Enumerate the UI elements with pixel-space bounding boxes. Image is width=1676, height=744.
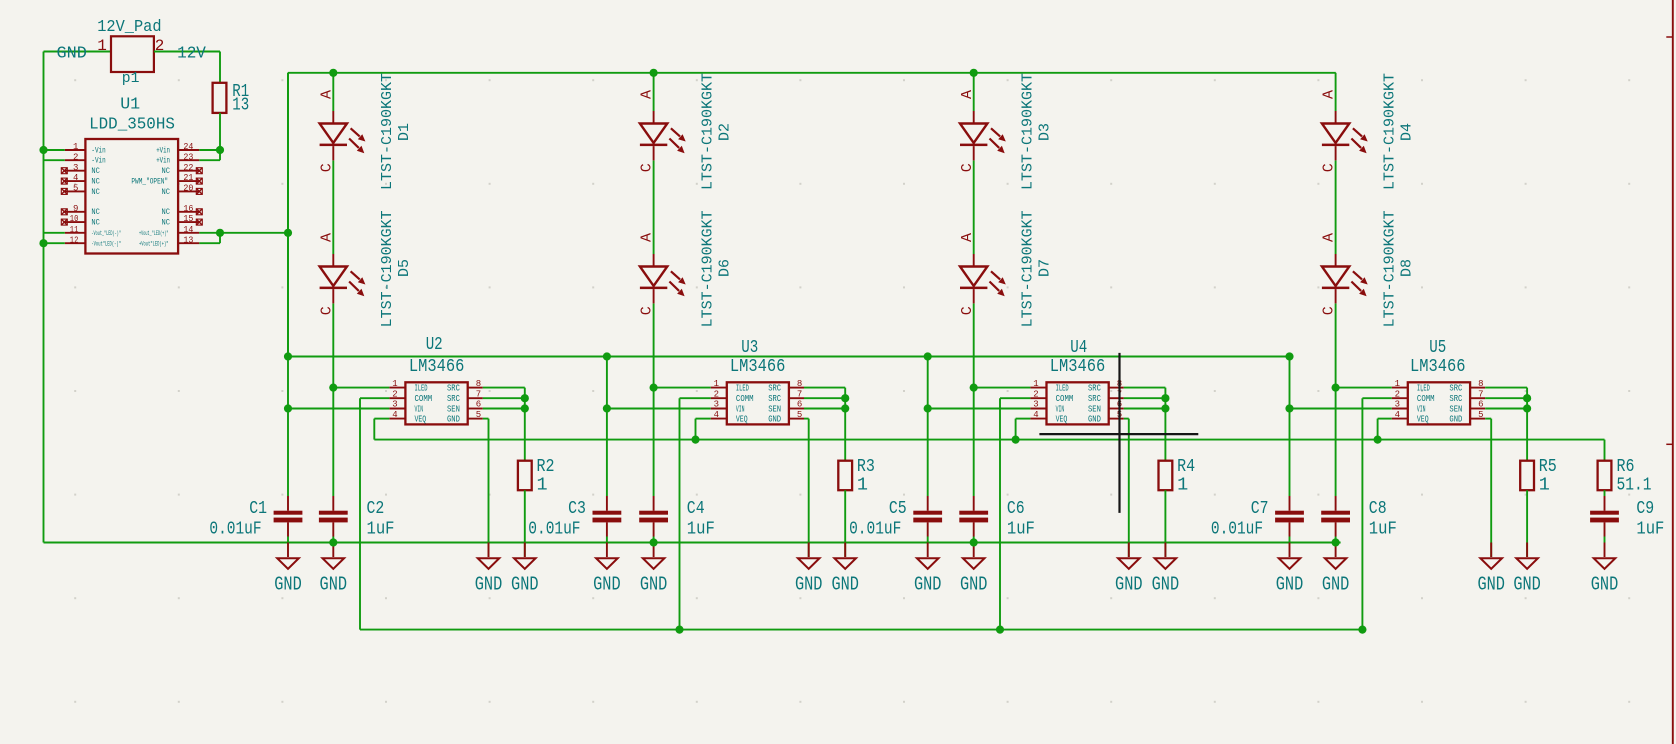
svg-text:22: 22 bbox=[183, 163, 193, 173]
svg-text:3: 3 bbox=[1395, 400, 1400, 410]
svg-text:GND: GND bbox=[914, 573, 942, 595]
svg-text:LTST-C190KGKT: LTST-C190KGKT bbox=[1019, 73, 1036, 190]
svg-text:A: A bbox=[639, 233, 656, 242]
svg-text:SEN: SEN bbox=[447, 405, 460, 415]
svg-text:D1: D1 bbox=[396, 123, 413, 141]
svg-text:VIN: VIN bbox=[415, 405, 424, 415]
svg-text:GND: GND bbox=[795, 573, 823, 595]
svg-text:VIN: VIN bbox=[736, 405, 745, 415]
svg-text:GND: GND bbox=[640, 573, 668, 595]
svg-text:6: 6 bbox=[1478, 400, 1483, 410]
svg-text:0.01uF: 0.01uF bbox=[849, 519, 901, 540]
svg-text:5: 5 bbox=[476, 410, 481, 420]
svg-text:3: 3 bbox=[1033, 400, 1038, 410]
svg-text:GND: GND bbox=[1276, 573, 1304, 595]
svg-text:4: 4 bbox=[392, 410, 397, 420]
svg-text:1uF: 1uF bbox=[1636, 519, 1664, 540]
svg-text:VIN: VIN bbox=[1417, 405, 1426, 415]
svg-text:-Vin: -Vin bbox=[91, 146, 105, 155]
svg-text:+Vin: +Vin bbox=[156, 157, 170, 166]
svg-text:-Vin: -Vin bbox=[91, 157, 105, 166]
svg-text:GND: GND bbox=[274, 573, 302, 595]
svg-text:+Vout"LED(+)": +Vout"LED(+)" bbox=[139, 241, 169, 248]
svg-text:8: 8 bbox=[1478, 379, 1483, 389]
svg-text:+Vout_"LED(+)": +Vout_"LED(+)" bbox=[139, 230, 169, 237]
svg-text:8: 8 bbox=[476, 379, 481, 389]
svg-text:11: 11 bbox=[70, 225, 79, 235]
svg-text:SRC: SRC bbox=[768, 394, 781, 404]
svg-text:SRC: SRC bbox=[1449, 384, 1462, 394]
svg-text:NC: NC bbox=[162, 188, 171, 197]
svg-text:2: 2 bbox=[714, 389, 719, 399]
svg-text:C1: C1 bbox=[249, 498, 267, 519]
svg-text:5: 5 bbox=[73, 184, 78, 194]
svg-text:NC: NC bbox=[91, 219, 100, 228]
svg-text:GND: GND bbox=[320, 573, 348, 595]
svg-text:LTST-C190KGKT: LTST-C190KGKT bbox=[1381, 210, 1398, 327]
svg-text:C3: C3 bbox=[568, 498, 586, 519]
svg-text:GND: GND bbox=[831, 573, 859, 595]
svg-text:3: 3 bbox=[73, 163, 78, 173]
svg-text:VEQ: VEQ bbox=[736, 415, 748, 425]
svg-text:A: A bbox=[959, 90, 976, 99]
svg-text:7: 7 bbox=[797, 389, 802, 399]
svg-text:2: 2 bbox=[1033, 389, 1038, 399]
svg-text:5: 5 bbox=[1478, 410, 1483, 420]
svg-text:14: 14 bbox=[183, 225, 193, 235]
svg-text:0.01uF: 0.01uF bbox=[528, 519, 580, 540]
svg-text:NC: NC bbox=[162, 167, 171, 176]
svg-text:GND: GND bbox=[1088, 415, 1101, 425]
svg-text:VEQ: VEQ bbox=[1056, 415, 1068, 425]
svg-text:-Vout_"LED(-)": -Vout_"LED(-)" bbox=[91, 230, 121, 237]
svg-text:D7: D7 bbox=[1036, 259, 1053, 277]
svg-text:C6: C6 bbox=[1007, 498, 1025, 519]
svg-text:SRC: SRC bbox=[1449, 394, 1462, 404]
svg-text:7: 7 bbox=[476, 389, 481, 399]
svg-text:4: 4 bbox=[73, 173, 78, 183]
svg-text:VEQ: VEQ bbox=[1417, 415, 1429, 425]
svg-text:GND: GND bbox=[960, 573, 988, 595]
svg-text:4: 4 bbox=[1395, 410, 1400, 420]
svg-text:6: 6 bbox=[797, 400, 802, 410]
svg-text:U1: U1 bbox=[120, 96, 140, 115]
svg-text:15: 15 bbox=[183, 214, 193, 224]
svg-text:ILED: ILED bbox=[1056, 384, 1069, 394]
svg-text:1uF: 1uF bbox=[1007, 519, 1035, 540]
svg-text:GND: GND bbox=[57, 44, 87, 62]
svg-text:C4: C4 bbox=[687, 498, 705, 519]
svg-text:21: 21 bbox=[183, 173, 193, 183]
svg-text:4: 4 bbox=[1033, 410, 1038, 420]
svg-text:2: 2 bbox=[1395, 389, 1400, 399]
svg-text:VEQ: VEQ bbox=[415, 415, 427, 425]
svg-text:51.1: 51.1 bbox=[1617, 475, 1652, 496]
svg-text:0.01uF: 0.01uF bbox=[209, 519, 261, 540]
svg-text:12V: 12V bbox=[177, 44, 206, 62]
svg-text:GND: GND bbox=[1322, 573, 1350, 595]
svg-text:NC: NC bbox=[91, 188, 100, 197]
svg-text:GND: GND bbox=[511, 573, 539, 595]
svg-text:0.01uF: 0.01uF bbox=[1211, 519, 1263, 540]
svg-text:C8: C8 bbox=[1369, 498, 1387, 519]
svg-text:1: 1 bbox=[857, 475, 868, 496]
svg-text:7: 7 bbox=[1478, 389, 1483, 399]
svg-text:LM3466: LM3466 bbox=[730, 356, 786, 377]
svg-text:A: A bbox=[318, 233, 335, 242]
svg-text:D2: D2 bbox=[716, 123, 733, 141]
svg-text:12: 12 bbox=[70, 235, 79, 245]
svg-text:2: 2 bbox=[73, 152, 78, 162]
svg-text:20: 20 bbox=[183, 184, 193, 194]
svg-text:LTST-C190KGKT: LTST-C190KGKT bbox=[379, 210, 396, 327]
svg-text:COMM: COMM bbox=[415, 394, 433, 404]
svg-text:LDD_350HS: LDD_350HS bbox=[89, 116, 175, 135]
svg-text:24: 24 bbox=[183, 142, 193, 152]
svg-text:1: 1 bbox=[97, 37, 107, 55]
svg-text:NC: NC bbox=[91, 178, 100, 187]
svg-text:SEN: SEN bbox=[768, 405, 781, 415]
svg-text:NC: NC bbox=[91, 208, 100, 217]
svg-text:SRC: SRC bbox=[447, 394, 460, 404]
svg-text:3: 3 bbox=[714, 400, 719, 410]
svg-text:D3: D3 bbox=[1036, 123, 1053, 141]
svg-text:1uF: 1uF bbox=[687, 519, 715, 540]
svg-text:NC: NC bbox=[162, 219, 171, 228]
svg-text:SEN: SEN bbox=[1088, 405, 1101, 415]
svg-text:LTST-C190KGKT: LTST-C190KGKT bbox=[699, 73, 716, 190]
svg-text:D5: D5 bbox=[396, 259, 413, 277]
svg-text:GND: GND bbox=[475, 573, 503, 595]
svg-text:C5: C5 bbox=[889, 498, 907, 519]
svg-text:GND: GND bbox=[1115, 573, 1143, 595]
svg-text:p1: p1 bbox=[122, 70, 140, 87]
svg-text:SRC: SRC bbox=[447, 384, 460, 394]
svg-text:5: 5 bbox=[797, 410, 802, 420]
svg-text:A: A bbox=[639, 90, 656, 99]
svg-text:ILED: ILED bbox=[415, 384, 428, 394]
svg-text:LM3466: LM3466 bbox=[409, 356, 465, 377]
svg-text:U2: U2 bbox=[426, 334, 443, 355]
svg-text:GND: GND bbox=[1477, 573, 1505, 595]
svg-text:NC: NC bbox=[91, 167, 100, 176]
svg-text:C7: C7 bbox=[1251, 498, 1269, 519]
svg-text:LTST-C190KGKT: LTST-C190KGKT bbox=[699, 210, 716, 327]
svg-text:D6: D6 bbox=[716, 259, 733, 277]
svg-text:1: 1 bbox=[1539, 475, 1550, 496]
svg-text:LM3466: LM3466 bbox=[1410, 356, 1466, 377]
svg-text:1: 1 bbox=[537, 475, 548, 496]
svg-text:A: A bbox=[959, 233, 976, 242]
svg-text:1: 1 bbox=[392, 379, 397, 389]
svg-text:12V_Pad: 12V_Pad bbox=[97, 17, 161, 36]
svg-text:C2: C2 bbox=[367, 498, 385, 519]
svg-text:1: 1 bbox=[1395, 379, 1400, 389]
svg-text:LTST-C190KGKT: LTST-C190KGKT bbox=[1381, 73, 1398, 190]
svg-text:10: 10 bbox=[70, 214, 79, 224]
svg-text:VIN: VIN bbox=[1056, 405, 1065, 415]
svg-text:13: 13 bbox=[232, 95, 249, 116]
svg-text:1: 1 bbox=[714, 379, 719, 389]
svg-text:2: 2 bbox=[155, 37, 165, 55]
svg-text:-Vout"LED(-)": -Vout"LED(-)" bbox=[91, 241, 121, 248]
svg-text:A: A bbox=[1321, 233, 1338, 242]
svg-text:A: A bbox=[1321, 90, 1338, 99]
svg-text:GND: GND bbox=[1513, 573, 1541, 595]
svg-text:A: A bbox=[318, 90, 335, 99]
svg-text:+Vin: +Vin bbox=[156, 146, 170, 155]
svg-text:SRC: SRC bbox=[1088, 384, 1101, 394]
svg-text:GND: GND bbox=[768, 415, 781, 425]
svg-text:GND: GND bbox=[593, 573, 621, 595]
svg-text:3: 3 bbox=[392, 400, 397, 410]
svg-text:GND: GND bbox=[1591, 573, 1619, 595]
svg-text:6: 6 bbox=[476, 400, 481, 410]
svg-text:COMM: COMM bbox=[1417, 394, 1435, 404]
svg-text:9: 9 bbox=[73, 204, 78, 214]
svg-text:1uF: 1uF bbox=[1369, 519, 1397, 540]
svg-text:D4: D4 bbox=[1398, 123, 1415, 141]
svg-text:2: 2 bbox=[392, 389, 397, 399]
svg-text:LM3466: LM3466 bbox=[1050, 356, 1106, 377]
svg-text:4: 4 bbox=[714, 410, 719, 420]
svg-text:ILED: ILED bbox=[1417, 384, 1430, 394]
svg-text:16: 16 bbox=[183, 204, 193, 214]
svg-text:13: 13 bbox=[183, 235, 193, 245]
svg-text:D8: D8 bbox=[1398, 259, 1415, 277]
svg-text:GND: GND bbox=[447, 415, 460, 425]
svg-text:PWM_"OPEN": PWM_"OPEN" bbox=[131, 178, 168, 187]
svg-text:C9: C9 bbox=[1636, 498, 1654, 519]
svg-text:SRC: SRC bbox=[768, 384, 781, 394]
svg-text:1: 1 bbox=[1033, 379, 1038, 389]
svg-text:1uF: 1uF bbox=[367, 519, 395, 540]
svg-text:LTST-C190KGKT: LTST-C190KGKT bbox=[379, 73, 396, 190]
svg-text:NC: NC bbox=[162, 208, 171, 217]
svg-text:GND: GND bbox=[1152, 573, 1180, 595]
svg-text:LTST-C190KGKT: LTST-C190KGKT bbox=[1019, 210, 1036, 327]
svg-text:ILED: ILED bbox=[736, 384, 749, 394]
svg-text:1: 1 bbox=[1177, 475, 1188, 496]
svg-text:1: 1 bbox=[73, 142, 78, 152]
svg-text:23: 23 bbox=[183, 152, 193, 162]
svg-text:8: 8 bbox=[797, 379, 802, 389]
svg-text:SEN: SEN bbox=[1449, 405, 1462, 415]
svg-text:COMM: COMM bbox=[736, 394, 754, 404]
svg-text:COMM: COMM bbox=[1056, 394, 1074, 404]
svg-text:SRC: SRC bbox=[1088, 394, 1101, 404]
svg-text:GND: GND bbox=[1449, 415, 1462, 425]
